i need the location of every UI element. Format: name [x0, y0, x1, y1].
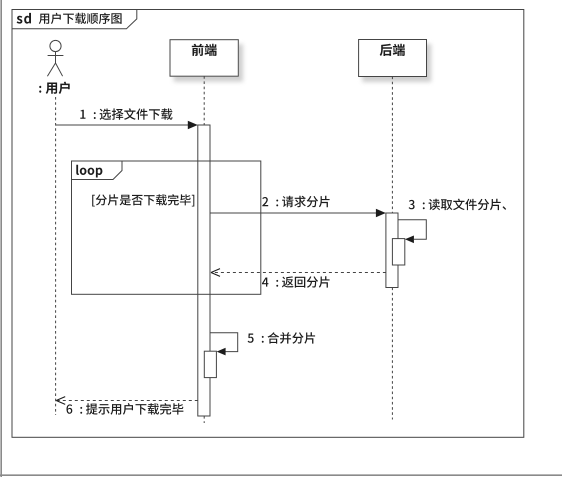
- message 3 label: [409, 199, 507, 211]
- lifeline head 后端: [359, 40, 427, 77]
- loop guard: [92, 194, 194, 206]
- message 4 label: [262, 276, 330, 288]
- message 1 选择文件下载 wire: [56, 124, 189, 126]
- actor label :用户: [39, 82, 69, 94]
- 后端 activation bar: [386, 213, 398, 288]
- message 5 self call wire: [210, 333, 238, 352]
- message 3 self call wire: [398, 220, 426, 240]
- message 2 请求分片 wire: [210, 212, 376, 214]
- label 前端: [192, 44, 217, 56]
- message 4 返回分片 wire: [212, 272, 386, 274]
- diagram title 用户下载顺序图: [39, 13, 122, 24]
- 前端 nested activation: [204, 351, 216, 377]
- 前端 lifeline upper: [203, 76, 205, 125]
- message 6 label: [67, 403, 184, 415]
- 后端 lifeline upper: [391, 77, 393, 213]
- sd label: [17, 13, 31, 24]
- canvas bottom edge: [0, 474, 562, 476]
- label 后端: [380, 44, 405, 56]
- 前端 lifeline lower: [203, 416, 205, 423]
- actor lifeline: [55, 97, 57, 415]
- message 2 label: [262, 196, 329, 208]
- canvas left edge: [0, 0, 2, 477]
- 后端 nested activation: [392, 239, 404, 265]
- sd title pentagon: [12, 10, 137, 29]
- message 1 label: [80, 108, 172, 120]
- lifeline head 前端: [170, 40, 238, 76]
- loop pentagon: [72, 161, 123, 180]
- 后端 lifeline lower: [391, 288, 393, 420]
- loop label: [76, 165, 102, 178]
- loop frame: [72, 161, 261, 294]
- actor 用户 stick figure: [47, 40, 63, 76]
- 前端 activation bar: [198, 125, 210, 416]
- message 5 label: [248, 332, 316, 344]
- message 6 提示用户下载完毕 wire: [57, 400, 198, 402]
